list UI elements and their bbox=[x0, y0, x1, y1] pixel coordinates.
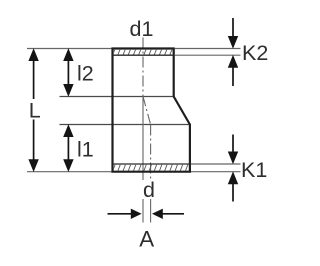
svg-text:K2: K2 bbox=[242, 41, 268, 65]
shoulder line upper (l2 bottom / cone start) bbox=[60, 96, 174, 98]
K1 extension bottom bbox=[191, 171, 241, 173]
centerline upper axis solid part bbox=[142, 97, 144, 181]
socket wall inner line top bbox=[113, 54, 174, 56]
svg-text:l1: l1 bbox=[77, 138, 94, 162]
K1 extension top bbox=[191, 163, 241, 165]
reducer body outline bbox=[113, 49, 190, 172]
centerline upper axis lower segment bbox=[142, 199, 144, 223]
dimension l2 arrow up bbox=[63, 48, 73, 61]
dimension K2 arrow down bbox=[228, 36, 238, 49]
dimension K1 upper shaft bbox=[232, 135, 234, 153]
svg-text:L: L bbox=[29, 99, 41, 123]
hatch band top bbox=[112, 48, 178, 57]
K2 extension bottom bbox=[175, 54, 241, 56]
dimension l2 arrow down bbox=[63, 84, 73, 97]
dimension L arrow up bbox=[28, 48, 38, 61]
dimension A arrow right-pointing bbox=[131, 209, 142, 219]
dimension l1 arrow up bbox=[63, 124, 73, 137]
dimension l1 line bbox=[67, 136, 69, 161]
dimension K1 arrow down bbox=[228, 152, 238, 165]
svg-text:d: d bbox=[143, 178, 155, 202]
shoulder line lower (l1 top / cone end) bbox=[60, 124, 190, 126]
svg-text:l2: l2 bbox=[77, 62, 94, 86]
dimension l2 line bbox=[67, 60, 69, 85]
svg-text:K1: K1 bbox=[241, 158, 267, 182]
dimension K2 arrow up bbox=[228, 55, 238, 68]
svg-text:A: A bbox=[139, 227, 154, 252]
centerline lower axis bbox=[150, 125, 152, 181]
hatch band bottom bbox=[112, 163, 194, 172]
centerline eccentric diagonal bbox=[143, 97, 151, 125]
centerline lower axis lower segment bbox=[150, 199, 152, 223]
svg-text:d1: d1 bbox=[130, 17, 154, 41]
K2 extension top bbox=[175, 48, 241, 50]
dimension A arrow left-pointing bbox=[152, 209, 163, 219]
dimension K1 arrow up bbox=[228, 171, 238, 184]
extension line bottom left (L/l1 bottom) bbox=[27, 171, 113, 173]
extension line top left (L/l2 top) bbox=[27, 48, 113, 50]
centerline upper axis bbox=[142, 38, 144, 97]
socket wall inner line bottom bbox=[113, 163, 190, 165]
dimension K1 lower shaft bbox=[232, 183, 234, 201]
dimension L arrow down bbox=[28, 159, 38, 172]
dimension A right shaft bbox=[162, 213, 184, 215]
dimension l1 arrow down bbox=[63, 159, 73, 172]
dimension A left shaft bbox=[108, 213, 132, 215]
dimension K2 upper shaft bbox=[232, 18, 234, 37]
dimension L line bbox=[33, 60, 35, 161]
dimension K2 lower shaft bbox=[232, 67, 234, 86]
